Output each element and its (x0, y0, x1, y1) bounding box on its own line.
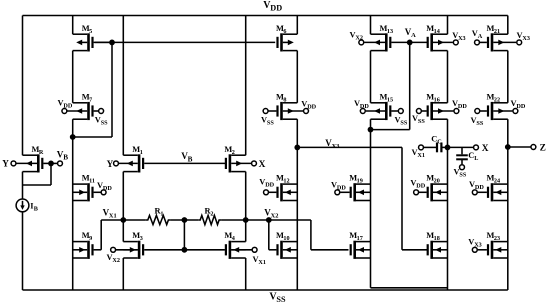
wire (447, 147, 449, 290)
wire (424, 146, 436, 148)
wire VX3 line (297, 146, 402, 148)
wire (507, 16, 509, 35)
svg-text:17: 17 (357, 235, 363, 242)
wire (296, 51, 298, 103)
wire (72, 51, 74, 103)
svg-text:DD: DD (458, 103, 467, 110)
transistor M15 (385, 102, 388, 120)
node VX3 (294, 145, 300, 151)
wire VX2 line (246, 219, 269, 221)
svg-text:DD: DD (360, 103, 369, 110)
terminal Z (output) (531, 145, 536, 150)
node R1-R2 midpoint (182, 217, 188, 223)
svg-text:10: 10 (283, 235, 289, 242)
terminal VX2 (M13 body) (359, 40, 364, 45)
svg-text:L: L (474, 155, 478, 162)
terminal VDD (M15 body) (360, 109, 365, 114)
node VA-M15 drain junction (368, 127, 374, 133)
wire (111, 42, 113, 137)
svg-text:X2: X2 (355, 35, 363, 42)
terminal VSS (CL bottom) (460, 165, 465, 170)
wire M5-M6 gate line (95, 41, 275, 43)
terminal VSS (M8 gate) (263, 109, 268, 114)
wire (370, 130, 372, 288)
wire (296, 147, 298, 290)
transistor M16 (430, 102, 433, 120)
svg-text:X2: X2 (271, 213, 279, 220)
terminal VX1 (CC left) (419, 145, 424, 150)
terminal VDD (M7 body) (62, 109, 67, 114)
wire CL branch (461, 147, 463, 154)
terminal VDD (M19 gate) (335, 190, 340, 195)
svg-text:SS: SS (459, 172, 466, 179)
svg-text:X: X (482, 144, 489, 154)
svg-text:7: 7 (89, 96, 92, 103)
terminal Y (M1 body) (114, 161, 119, 166)
terminal VDD (M20 gate) (414, 190, 419, 195)
wire (122, 258, 124, 290)
transistor M7 (87, 102, 90, 120)
wire (122, 172, 124, 220)
svg-text:X2: X2 (112, 257, 120, 264)
transistor M10 (280, 241, 283, 259)
terminal VA (M21 gate) (475, 40, 480, 45)
svg-text:C: C (437, 139, 441, 146)
wire (447, 51, 449, 103)
terminal VSS (M16 gate) (416, 109, 421, 114)
transistor M23 (491, 241, 494, 259)
wire VSS bottom rail (23, 289, 508, 291)
terminal VSS (M15 gate) (398, 109, 403, 114)
svg-text:14: 14 (434, 28, 440, 35)
wire (73, 136, 112, 138)
wire (245, 220, 247, 242)
svg-text:DD: DD (265, 182, 274, 189)
wire M4 body lead (231, 249, 252, 251)
svg-text:A: A (478, 33, 483, 40)
wire (311, 249, 349, 251)
svg-text:X3: X3 (474, 242, 482, 249)
terminal VB (58, 161, 63, 166)
wire (447, 119, 449, 147)
wire (23, 184, 52, 186)
svg-text:B: B (188, 156, 193, 164)
svg-text:DD: DD (103, 185, 112, 192)
svg-text:DD: DD (63, 102, 72, 109)
terminal VX3 (M23 gate) (472, 247, 477, 252)
wire (507, 119, 509, 147)
node VA (407, 40, 413, 46)
svg-text:2: 2 (232, 149, 235, 156)
svg-text:3: 3 (140, 235, 143, 242)
terminal VDD (M24 gate) (472, 190, 477, 195)
wire (401, 147, 403, 249)
wire (370, 119, 372, 129)
transistor M1 (138, 154, 141, 172)
wire (409, 42, 411, 129)
transistor M9 (87, 241, 90, 259)
terminal VDD (M22 body) (513, 109, 518, 114)
capacitor CL (456, 154, 468, 156)
wire (221, 219, 246, 221)
transistor M20 (430, 183, 433, 201)
transistor M21 (491, 33, 494, 51)
resistor R1 (146, 215, 171, 224)
svg-text:X3: X3 (458, 35, 466, 42)
wire (371, 129, 410, 131)
svg-text:13: 13 (387, 28, 393, 35)
wire VDD top rail (23, 15, 508, 17)
svg-text:22: 22 (494, 96, 500, 103)
svg-text:SS: SS (276, 295, 286, 304)
transistor M19 (353, 183, 356, 201)
resistor R2 (198, 215, 221, 224)
transistor M17 (353, 241, 356, 259)
wire (507, 51, 509, 103)
wire (122, 220, 124, 242)
svg-text:SS: SS (476, 120, 483, 127)
wire (72, 119, 74, 137)
svg-text:DD: DD (475, 184, 484, 191)
terminal VDD (M8 body) (304, 109, 309, 114)
wire (170, 219, 198, 221)
node M5 gate junction (109, 40, 115, 46)
wire (461, 159, 463, 164)
transistor M13 (385, 33, 388, 51)
wire X node to X terminal (448, 146, 474, 148)
svg-text:Z: Z (540, 144, 546, 154)
wire (245, 172, 247, 220)
terminal VX1 (M4 body) (252, 247, 257, 252)
svg-text:15: 15 (387, 96, 393, 103)
svg-text:DD: DD (416, 182, 425, 189)
node B junction (70, 134, 76, 140)
wire M9 gate (100, 220, 102, 250)
svg-text:R: R (39, 149, 44, 156)
terminal X (output) (474, 145, 479, 150)
wire (245, 16, 247, 156)
svg-text:SS: SS (400, 120, 407, 127)
wire M10 gate (268, 220, 270, 250)
transistor M14 (430, 33, 433, 51)
terminal VX3 (M21 body) (517, 40, 522, 45)
svg-text:X1: X1 (109, 212, 117, 219)
svg-text:21: 21 (494, 28, 500, 35)
svg-text:19: 19 (357, 178, 363, 185)
terminal VDD (M12 gate) (264, 190, 269, 195)
node VX1 (120, 217, 126, 223)
svg-text:Y: Y (2, 159, 9, 169)
svg-text:12: 12 (283, 178, 289, 185)
terminal X (M2 body) (252, 161, 257, 166)
svg-text:9: 9 (89, 235, 92, 242)
node VX2 (243, 217, 249, 223)
wire (22, 172, 24, 200)
terminal VDD (M16 body) (454, 109, 459, 114)
transistor M22 (491, 102, 494, 120)
svg-text:6: 6 (283, 28, 286, 35)
svg-text:8: 8 (283, 96, 286, 103)
wire (443, 146, 448, 148)
transistor M11 (87, 183, 90, 201)
svg-text:X1: X1 (258, 259, 266, 266)
svg-text:X3: X3 (522, 35, 530, 42)
current source IB (16, 199, 29, 212)
wire (122, 16, 124, 156)
wire (245, 258, 247, 290)
wire VA to M14 gate (410, 41, 428, 43)
terminal VDD (M11 gate) (101, 190, 106, 195)
svg-text:23: 23 (494, 235, 500, 242)
svg-text:1: 1 (140, 149, 143, 156)
node X (445, 145, 451, 151)
wire (269, 219, 311, 221)
wire (370, 16, 372, 35)
wire (50, 163, 52, 185)
transistor M2 (229, 154, 232, 172)
terminal VX2 (M3 body) (111, 247, 116, 252)
svg-text:5: 5 (89, 28, 92, 35)
wire (22, 212, 24, 290)
wire (22, 16, 24, 156)
wire M18 gate feed (402, 249, 428, 251)
svg-text:24: 24 (494, 178, 500, 185)
wire (296, 119, 298, 147)
transistor M6 (280, 33, 283, 51)
wire M3 body lead (116, 249, 138, 251)
svg-text:DD: DD (307, 104, 316, 111)
terminal VSS (M22 gate) (475, 109, 480, 114)
wire (123, 219, 146, 221)
wire (370, 51, 372, 103)
svg-text:SS: SS (267, 120, 274, 127)
svg-text:B: B (34, 206, 38, 213)
node gate line junction (182, 247, 188, 253)
wire (507, 147, 509, 290)
transistor M8 (280, 102, 283, 120)
wire M17-M18 source tie (371, 287, 448, 289)
terminal VX3 (M14 body) (453, 40, 458, 45)
wire (72, 137, 74, 290)
wire (296, 16, 298, 35)
svg-text:1: 1 (160, 211, 163, 218)
svg-text:SS: SS (418, 118, 425, 125)
transistor MR (37, 154, 40, 172)
capacitor CC (436, 143, 438, 153)
svg-text:A: A (411, 32, 416, 39)
svg-text:4: 4 (232, 235, 235, 242)
wire (447, 16, 449, 35)
svg-text:X: X (259, 160, 266, 170)
svg-text:B: B (63, 154, 68, 162)
transistor M3 (138, 241, 141, 259)
transistor M12 (280, 183, 283, 201)
svg-text:Y: Y (107, 159, 114, 169)
wire (101, 219, 123, 221)
svg-text:X1: X1 (417, 152, 425, 159)
svg-text:18: 18 (434, 235, 440, 242)
wire Z node to Z terminal (508, 146, 531, 148)
node MR gate-drain junction (48, 161, 54, 167)
transistor M4 (229, 241, 232, 259)
svg-text:11: 11 (89, 178, 95, 185)
node Z (505, 144, 511, 150)
transistor M18 (430, 241, 433, 259)
svg-text:20: 20 (434, 178, 440, 185)
node VX2 branch (266, 217, 272, 223)
transistor M24 (491, 183, 494, 201)
transistor M5 (87, 33, 90, 51)
svg-text:16: 16 (434, 96, 440, 103)
svg-text:DD: DD (270, 4, 282, 13)
wire (183, 220, 185, 250)
svg-text:DD: DD (516, 103, 525, 110)
wire (310, 220, 312, 250)
svg-text:2: 2 (210, 211, 213, 218)
svg-text:SS: SS (101, 119, 108, 126)
terminal VSS (M7 gate) (99, 109, 104, 114)
svg-text:X3: X3 (332, 143, 340, 150)
svg-text:DD: DD (337, 184, 346, 191)
wire (72, 16, 74, 35)
terminal Y (MR body) (11, 161, 16, 166)
